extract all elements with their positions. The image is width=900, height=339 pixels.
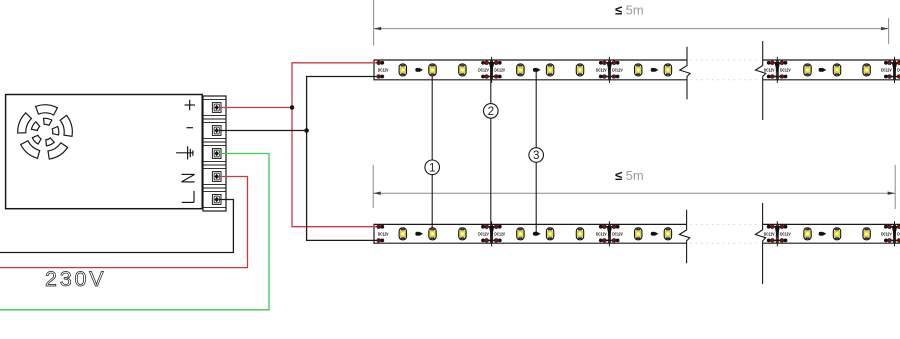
svg-text:DC12V: DC12V	[780, 232, 791, 237]
svg-text:DC12V: DC12V	[612, 68, 623, 73]
svg-text:≤5m: ≤5m	[615, 168, 644, 183]
svg-text:DC12V: DC12V	[378, 232, 389, 237]
svg-text:3: 3	[533, 149, 539, 162]
svg-text:DC12V: DC12V	[764, 232, 775, 237]
svg-text:≤5m: ≤5m	[615, 3, 644, 18]
svg-text:DC12V: DC12V	[881, 68, 892, 73]
svg-text:DC12V: DC12V	[881, 232, 892, 237]
svg-text:DC12V: DC12V	[612, 232, 623, 237]
svg-text:DC12V: DC12V	[596, 232, 607, 237]
svg-text:DC12V: DC12V	[478, 68, 489, 73]
svg-text:DC12V: DC12V	[494, 68, 505, 73]
svg-text:1: 1	[429, 162, 435, 175]
svg-text:DC12V: DC12V	[378, 68, 389, 73]
svg-text:DC12V: DC12V	[596, 68, 607, 73]
svg-text:DC12V: DC12V	[478, 232, 489, 237]
svg-text:DC12V: DC12V	[764, 68, 775, 73]
svg-text:DC12V: DC12V	[494, 232, 505, 237]
svg-text:230V: 230V	[45, 267, 106, 291]
svg-text:DC12V: DC12V	[780, 68, 791, 73]
svg-text:2: 2	[488, 105, 494, 118]
